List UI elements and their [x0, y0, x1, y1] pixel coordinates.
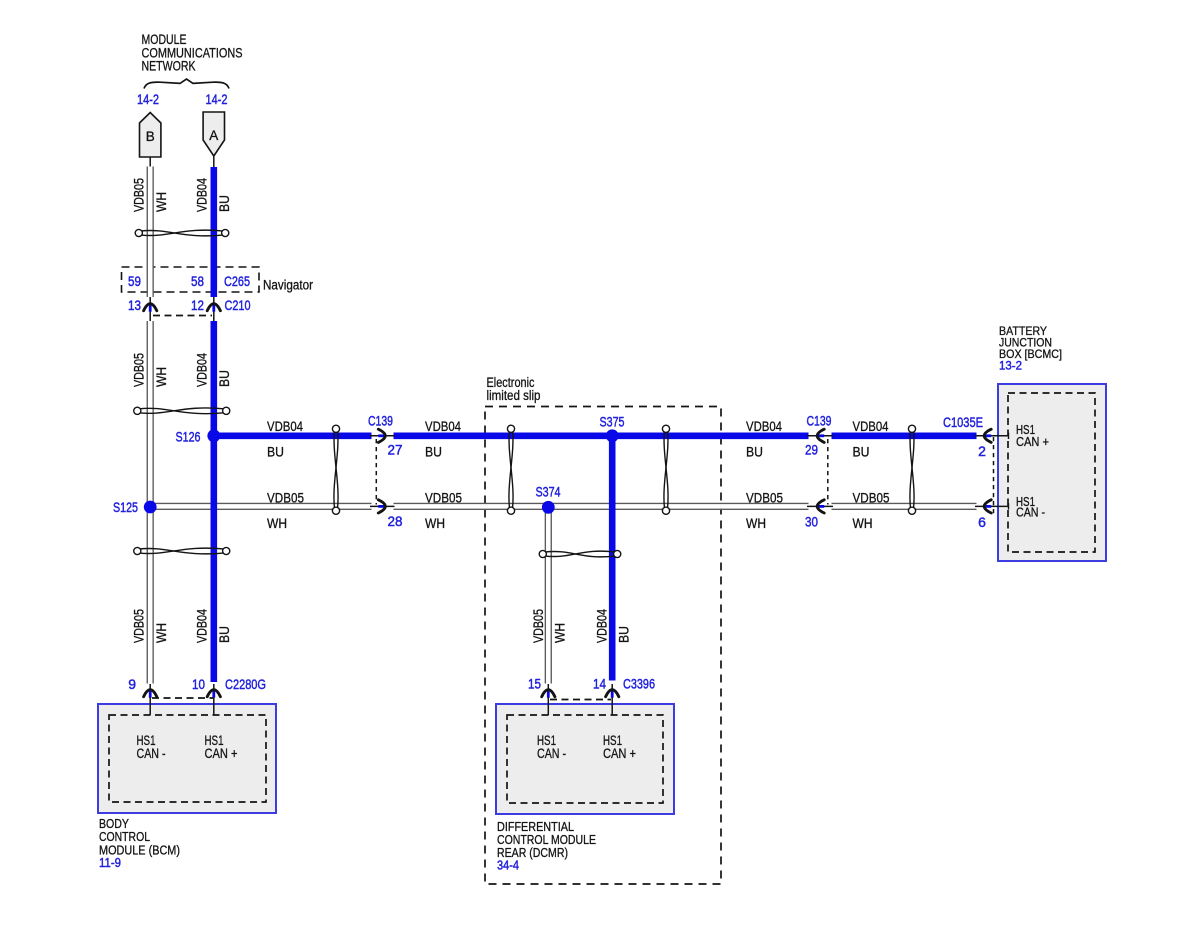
svg-text:S125: S125	[113, 499, 138, 515]
wire VDB04 BU vertical (C210 through S126 to BCM pin 10)	[211, 321, 218, 682]
wire lead through C139 pin 27	[370, 435, 395, 437]
twisted pair (bus, inside ELS left)	[507, 425, 514, 514]
svg-text:limited slip: limited slip	[487, 388, 541, 403]
svg-text:13: 13	[128, 297, 141, 313]
svg-text:11-9: 11-9	[99, 856, 121, 870]
svg-text:A: A	[209, 128, 218, 143]
svg-text:WH: WH	[154, 623, 169, 643]
C3396 pin 14 arrow	[611, 690, 614, 698]
wire VDB04 BU horizontal pin 29 to C1035E pin 2	[832, 432, 977, 439]
svg-text:58: 58	[191, 273, 204, 289]
wire VDB05 WH vertical S374 to DCMR pin 15	[545, 506, 551, 683]
svg-text:29: 29	[805, 442, 818, 458]
svg-text:WH: WH	[267, 516, 287, 531]
svg-text:VDB05: VDB05	[746, 491, 783, 506]
svg-text:BU: BU	[217, 370, 232, 387]
svg-text:C139: C139	[807, 413, 832, 429]
svg-text:VDB05: VDB05	[425, 491, 462, 506]
C3396 dashed connector line	[550, 699, 611, 701]
svg-text:10: 10	[192, 676, 205, 692]
svg-text:6: 6	[978, 514, 986, 530]
pin 2 terminal tick	[1008, 433, 1010, 439]
svg-text:CAN -: CAN -	[537, 746, 566, 761]
svg-text:VDB05: VDB05	[267, 491, 304, 506]
wire VDB04 BU vertical (A to C265)	[211, 167, 218, 297]
svg-text:14: 14	[593, 676, 606, 692]
C2280G dashed connector line	[152, 697, 213, 699]
svg-text:27: 27	[388, 442, 403, 458]
svg-text:CAN +: CAN +	[205, 746, 238, 761]
svg-text:VDB05: VDB05	[531, 609, 546, 643]
pin 29 arrow	[816, 434, 824, 437]
svg-text:CONTROL: CONTROL	[99, 830, 150, 844]
svg-text:VDB04: VDB04	[853, 419, 889, 434]
C3396 pin 15 arrow	[547, 690, 550, 698]
svg-text:VDB04: VDB04	[425, 419, 461, 434]
svg-text:C2280G: C2280G	[225, 676, 266, 692]
twisted pair (top section)	[135, 229, 229, 236]
wire VDB05 WH vertical (B to C265)	[147, 167, 153, 298]
svg-text:VDB04: VDB04	[195, 353, 210, 387]
wire VDB05 WH vertical (C210 to BCM pin 9)	[147, 321, 153, 684]
svg-text:BODY: BODY	[99, 817, 130, 831]
svg-text:WH: WH	[425, 516, 445, 531]
twisted pair (bus, right of C139)	[908, 425, 915, 514]
svg-text:CAN -: CAN -	[1016, 504, 1045, 519]
wire lead into BCMC pin 6	[975, 505, 1009, 507]
C210 pin 12 arrow	[212, 304, 215, 312]
wire lead into BCM pin 9	[149, 684, 151, 715]
wire lead into BCMC pin 2	[975, 435, 1009, 437]
svg-text:WH: WH	[853, 516, 873, 531]
svg-text:S375: S375	[600, 414, 625, 430]
svg-text:CAN +: CAN +	[603, 746, 636, 761]
svg-text:C210: C210	[225, 297, 251, 313]
module box Battery Junction Box [BCMC]	[998, 384, 1106, 561]
svg-text:2: 2	[978, 443, 986, 459]
splice S374	[542, 501, 555, 514]
pin 28 arrow	[378, 505, 386, 508]
splice S375	[606, 429, 619, 442]
svg-text:C1035E: C1035E	[943, 414, 983, 430]
svg-text:BU: BU	[217, 195, 232, 212]
C2280G pin 9 arrow	[149, 690, 152, 698]
svg-text:C3396: C3396	[623, 676, 655, 692]
svg-text:CAN -: CAN -	[137, 746, 166, 761]
svg-text:BU: BU	[853, 445, 870, 460]
twisted pair (bus, left of C139)	[332, 425, 339, 514]
svg-text:59: 59	[128, 273, 141, 289]
wire VDB05 WH horizontal S125 to C139 pin 28	[150, 503, 371, 509]
connector C139 dashed line (pins 29/30)	[827, 439, 829, 505]
svg-text:VDB04: VDB04	[195, 178, 210, 212]
svg-text:VDB05: VDB05	[132, 609, 147, 643]
wire lead into DCMR pin 14	[611, 684, 613, 715]
svg-text:30: 30	[805, 514, 818, 530]
connector C139 dashed line (pins 27/28)	[375, 439, 377, 505]
svg-text:BU: BU	[425, 445, 442, 460]
twisted pair (bus, inside ELS right)	[662, 425, 669, 514]
svg-text:DIFFERENTIAL: DIFFERENTIAL	[497, 820, 574, 834]
svg-text:28: 28	[388, 513, 403, 529]
pin 6 terminal tick	[1008, 503, 1010, 509]
svg-text:BU: BU	[617, 626, 632, 643]
svg-text:B: B	[146, 129, 155, 144]
svg-text:C265: C265	[224, 273, 250, 289]
twisted pair (below S125)	[134, 547, 230, 554]
svg-text:CONTROL MODULE: CONTROL MODULE	[497, 833, 596, 847]
svg-text:34-4: 34-4	[497, 859, 519, 873]
wire lead into DCMR pin 15	[547, 684, 549, 715]
svg-text:13-2: 13-2	[999, 359, 1022, 373]
svg-text:12: 12	[191, 297, 204, 313]
twisted pair (above S126)	[134, 407, 230, 414]
svg-text:WH: WH	[553, 623, 568, 643]
C210 pin 13 arrow	[149, 304, 152, 312]
BCMC inner dashed connector boundary	[1008, 393, 1095, 552]
wire lead through C139 pin 30	[807, 505, 833, 507]
connector C265 dashed box (Navigator)	[122, 267, 260, 292]
svg-text:BU: BU	[267, 445, 284, 460]
splice S125	[144, 501, 157, 514]
wire VDB05 WH horizontal pin 28 to C139 pin 30	[394, 503, 809, 509]
wire VDB05 WH horizontal pin 30 to C1035E pin 6	[832, 503, 977, 509]
svg-text:VDB04: VDB04	[267, 419, 303, 434]
svg-text:VDB04: VDB04	[195, 609, 210, 643]
svg-text:S374: S374	[536, 484, 561, 500]
wire VDB04 BU horizontal S126 to C139 pin 27	[211, 432, 372, 439]
DCMR inner dashed connector boundary	[507, 715, 663, 803]
wire lead into BCM pin 10	[213, 684, 215, 715]
svg-text:S126: S126	[176, 429, 201, 445]
pin 6 arrow	[983, 505, 991, 508]
svg-text:CAN +: CAN +	[1016, 434, 1049, 449]
svg-text:VDB05: VDB05	[132, 353, 147, 387]
svg-text:WH: WH	[154, 367, 169, 387]
module box BCM (Body Control Module)	[98, 704, 276, 813]
svg-text:WH: WH	[746, 516, 766, 531]
svg-text:BU: BU	[746, 445, 763, 460]
wire stem below A	[213, 156, 215, 167]
twisted pair (DCMR drop)	[539, 550, 621, 557]
svg-text:14-2: 14-2	[137, 91, 159, 107]
wire lead through C139 pin 29	[807, 435, 833, 437]
svg-text:BU: BU	[217, 626, 232, 643]
wire stem below B	[149, 157, 151, 167]
svg-text:14-2: 14-2	[206, 91, 228, 107]
svg-text:VDB04: VDB04	[746, 419, 782, 434]
Electronic limited slip dashed enclosure	[485, 407, 721, 885]
pin 30 arrow	[816, 505, 824, 508]
wire lead through C210 (BU)	[213, 297, 215, 321]
svg-text:NETWORK: NETWORK	[142, 59, 196, 74]
svg-text:9: 9	[128, 676, 136, 692]
svg-text:VDB05: VDB05	[132, 178, 147, 212]
svg-text:Navigator: Navigator	[263, 278, 313, 293]
module box DCMR (Differential Control Module Rear)	[496, 704, 674, 814]
C2280G pin 10 arrow	[212, 690, 215, 698]
wire lead through C210 (WH)	[149, 297, 151, 321]
svg-text:VDB05: VDB05	[853, 491, 890, 506]
svg-text:C139: C139	[368, 413, 393, 429]
svg-text:WH: WH	[154, 192, 169, 212]
brace grouping network wires	[144, 79, 229, 89]
wire VDB04 BU horizontal pin 27 to C139 pin 29	[394, 432, 809, 439]
wire lead through C139 pin 28	[370, 505, 395, 507]
pin 27 arrow	[378, 434, 386, 437]
splice S126	[207, 429, 220, 442]
C210 dashed connector line	[153, 315, 212, 317]
BCM inner dashed connector boundary	[109, 715, 266, 802]
svg-text:15: 15	[528, 676, 541, 692]
off-page connector A	[203, 112, 224, 156]
off-page connector B	[140, 113, 161, 158]
connector C1035E dashed line	[993, 437, 995, 516]
svg-text:VDB04: VDB04	[595, 609, 610, 643]
wire VDB04 BU vertical S375 to DCMR pin 14	[609, 436, 616, 681]
pin 2 arrow	[983, 434, 991, 437]
